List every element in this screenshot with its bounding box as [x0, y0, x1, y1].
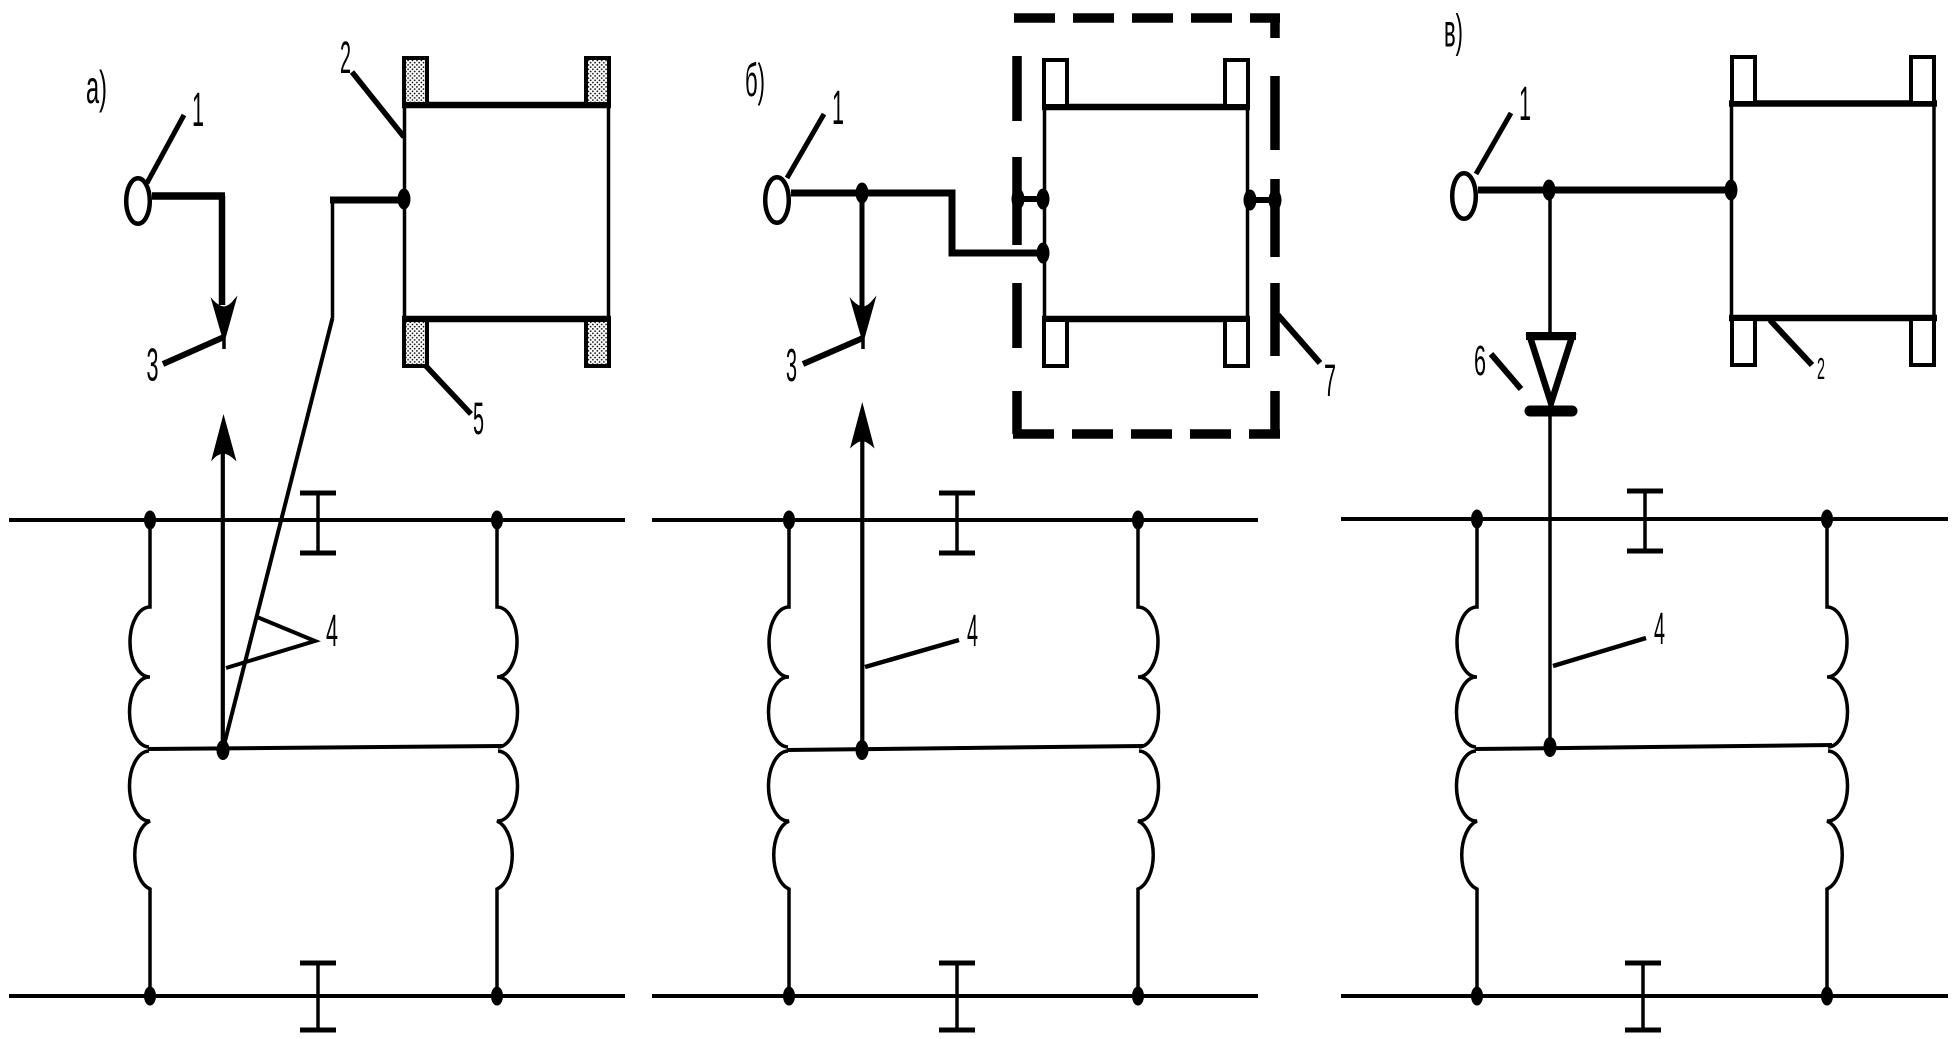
- leader line label 2 to block (panel v): [1770, 320, 1812, 365]
- svg-text:4: 4: [326, 605, 338, 656]
- svg-text:a): a): [86, 61, 107, 113]
- svg-text:2: 2: [340, 32, 351, 83]
- leader line label 6 to diode (panel v): [1491, 354, 1521, 389]
- down arrow 3 (panel b): [860, 196, 865, 307]
- block 2: converter rectangle (panel b): [1042, 107, 1250, 319]
- node dot at block edge (panel a): [398, 189, 411, 210]
- leader line label 1 to feeder circle (panel a): [147, 115, 184, 183]
- white pad top-left (panel b): [1044, 60, 1067, 106]
- right winding (panel v): [1827, 519, 1848, 996]
- bottom insulator (panel a): [300, 963, 336, 1030]
- dashed enclosure 7 (panel b): [1013, 18, 1280, 434]
- white pad top-left (panel v): [1732, 57, 1755, 103]
- leader line label 4 (panel v): [1553, 638, 1646, 666]
- svg-text:1: 1: [1519, 78, 1531, 131]
- top insulator (panel b): [939, 493, 975, 553]
- svg-text:3: 3: [147, 339, 159, 391]
- white pad bottom-left (panel b): [1044, 320, 1067, 366]
- svg-text:7: 7: [1324, 355, 1336, 406]
- top bus (panel a): [9, 518, 625, 522]
- hatched pad bottom-left 5 (panel a): [404, 320, 427, 366]
- wire from circle to corner (panel a): [152, 192, 225, 200]
- junction dot on wire (panel b): [856, 183, 869, 204]
- bottom bus (panel a): [9, 994, 625, 998]
- bus junction dots (panel v): [1471, 510, 1483, 529]
- svg-text:4: 4: [1654, 603, 1665, 654]
- wire down to diode (panel v): [1548, 193, 1552, 336]
- leader line label 1 to feeder circle (panel b): [787, 114, 824, 178]
- block 2: substation rectangle (panel a): [402, 105, 611, 319]
- diode 6 (panel v): [1526, 336, 1576, 411]
- white pad top-right (panel b): [1225, 60, 1248, 106]
- top bus (panel b): [652, 518, 1258, 522]
- tap junction dot (panel v): [1544, 737, 1557, 757]
- leader line label 2 to block (panel a): [352, 72, 404, 137]
- wire from diode to tap (panel v): [1548, 416, 1552, 748]
- feeder circle 1 (panel v): [1452, 173, 1476, 219]
- bottom bus (panel b): [652, 994, 1258, 998]
- node dot at block edge (panel v): [1725, 180, 1738, 201]
- svg-text:3: 3: [786, 339, 797, 391]
- svg-text:1: 1: [832, 82, 844, 135]
- svg-text:2: 2: [1817, 351, 1825, 386]
- bus junction dots (panel a): [144, 511, 156, 530]
- wire from circle to block (panel b): [791, 193, 1040, 253]
- right winding (panel a): [497, 520, 518, 996]
- wire from block to diagonal (panel a): [330, 197, 402, 204]
- middle tap line (panel a): [148, 746, 502, 749]
- tap junction dot (panel a): [217, 740, 230, 760]
- left winding (panel a): [129, 520, 150, 996]
- right winding (panel b): [1138, 520, 1159, 996]
- hatched pad bottom-right (panel a): [586, 320, 609, 366]
- svg-text:в): в): [1444, 5, 1463, 57]
- feeder circle 1 (panel b): [765, 177, 789, 223]
- middle tap line (panel v): [1475, 745, 1832, 749]
- diagonal conductor to tap point (panel a): [223, 318, 333, 749]
- node dot of main wire at block (panel b): [1037, 243, 1050, 264]
- svg-text:6: 6: [1474, 337, 1486, 385]
- leader line label 7 to dashed box (panel b): [1278, 315, 1320, 363]
- junction dot on wire (panel v): [1543, 180, 1556, 201]
- middle tap line (panel b): [787, 746, 1143, 750]
- leader line label 5 to pad (panel a): [425, 365, 471, 414]
- leader line label 3 to arrow (panel b): [803, 338, 863, 364]
- down arrow 3 (panel a): [219, 196, 226, 305]
- leader lines label 4 (panel a): [226, 617, 315, 668]
- white pad bottom-right (panel v): [1911, 319, 1934, 365]
- white pad bottom-left (panel v): [1732, 319, 1755, 365]
- tap junction dot (panel b): [856, 740, 869, 760]
- bus junction dots (panel b): [783, 511, 795, 530]
- svg-text:1: 1: [192, 84, 204, 137]
- bottom insulator (panel b): [939, 963, 975, 1030]
- white pad bottom-right (panel b): [1225, 320, 1248, 366]
- bottom bus (panel v): [1341, 994, 1948, 998]
- left winding (panel v): [1456, 519, 1477, 996]
- bottom insulator (panel v): [1625, 963, 1661, 1030]
- leader line label 1 to feeder circle (panel v): [1476, 113, 1511, 174]
- svg-text:5: 5: [473, 393, 484, 444]
- leader line label 3 to arrow (panel a): [163, 337, 224, 364]
- left stub wire through dashed box (panel b): [1017, 196, 1043, 202]
- block 2: rectangle (panel v): [1729, 104, 1937, 319]
- top insulator (panel v): [1627, 491, 1663, 551]
- svg-text:б): б): [745, 54, 765, 106]
- leader line label 4 (panel b): [865, 640, 959, 667]
- hatched pad top-right (panel a): [586, 58, 609, 104]
- hatched pad top-left (panel a): [404, 58, 427, 104]
- svg-text:4: 4: [967, 605, 978, 656]
- top insulator (panel a): [300, 493, 336, 553]
- right stub wire through dashed box (panel b): [1249, 197, 1276, 203]
- up arrow 4 (panel b): [860, 440, 864, 750]
- top bus (panel v): [1341, 517, 1948, 521]
- white pad top-right (panel v): [1911, 57, 1934, 103]
- feeder circle 1 (panel a): [126, 178, 150, 224]
- up arrow 4 (panel a): [221, 450, 225, 750]
- wire from circle to block (panel v): [1478, 187, 1731, 194]
- left winding (panel b): [768, 520, 789, 996]
